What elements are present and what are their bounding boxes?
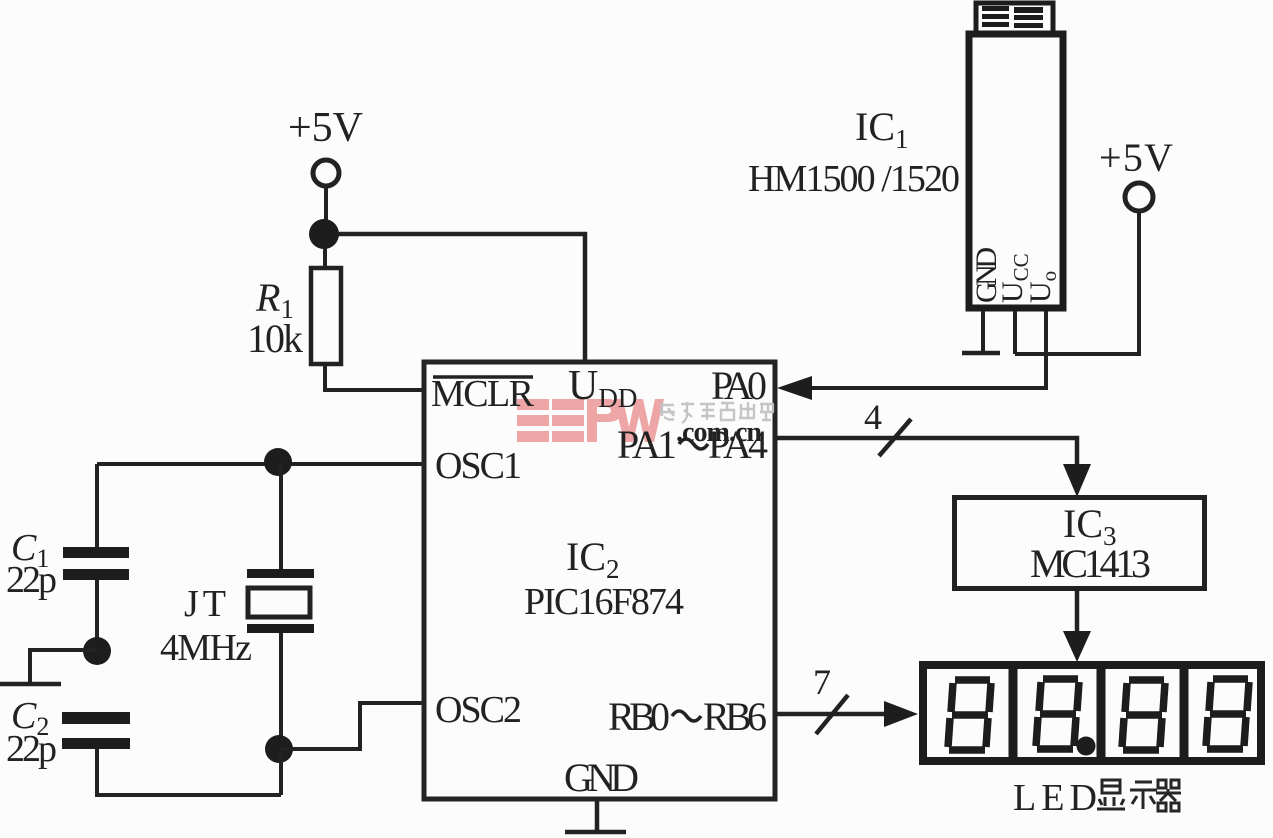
svg-text:PA4: PA4 bbox=[708, 422, 768, 467]
svg-text:+5V: +5V bbox=[1099, 135, 1173, 180]
wire OSC1 net bbox=[97, 462, 424, 466]
junction dot OSC2/crystal bbox=[265, 735, 293, 763]
wire OSC1 down to C1 bbox=[95, 464, 99, 549]
sensor Ucc pin bbox=[1013, 311, 1017, 354]
svg-text:RB6: RB6 bbox=[703, 694, 767, 739]
bus slash (4 lines) bbox=[879, 419, 911, 456]
wire R1 to MCLR pin bbox=[325, 364, 424, 390]
decimal point bbox=[1077, 737, 1096, 756]
capacitor C1 bbox=[63, 547, 129, 580]
label 显示器 (drawn glyphs) bbox=[1097, 780, 1181, 811]
arrowhead into PA0 bbox=[777, 376, 812, 400]
resistor R1 bbox=[311, 268, 341, 364]
LED digit divider 3 bbox=[1180, 662, 1189, 764]
LED display module box bbox=[923, 665, 1261, 761]
svg-text:JT: JT bbox=[184, 583, 226, 625]
wire RB0~RB6 to LED bbox=[775, 712, 886, 717]
arrowhead into IC3 bbox=[1063, 464, 1091, 497]
svg-text:MCLR: MCLR bbox=[431, 373, 535, 415]
ground (left) bbox=[0, 682, 61, 687]
ground (IC2) bbox=[565, 830, 626, 835]
sensor IC1 HM1500 body bbox=[969, 34, 1063, 308]
svg-text:4: 4 bbox=[864, 397, 882, 437]
svg-text:22p: 22p bbox=[6, 728, 57, 770]
pin label PA1~PA4 bbox=[617, 422, 768, 467]
wire C2 to bottom rail bbox=[97, 749, 281, 795]
bus slash (7 lines) bbox=[816, 695, 848, 734]
junction dot OSC1/crystal bbox=[264, 448, 292, 476]
LED digit 1 bbox=[948, 680, 991, 750]
wire OSC2 bbox=[281, 703, 424, 749]
svg-text:OSC2: OSC2 bbox=[435, 689, 522, 731]
svg-text:22p: 22p bbox=[6, 559, 57, 601]
LED digit divider 1 bbox=[1009, 662, 1018, 764]
svg-text:10k: 10k bbox=[247, 316, 303, 361]
wire junction to UDD pin bbox=[330, 234, 585, 361]
watermark chinese characters bbox=[659, 402, 774, 423]
junction dot C1/C2 bbox=[83, 637, 111, 665]
LED digit divider 2 bbox=[1097, 662, 1106, 764]
wire junction to bottom rail bbox=[279, 749, 283, 795]
watermark EEPW logo bbox=[517, 399, 664, 442]
svg-text:PIC16F874: PIC16F874 bbox=[524, 581, 684, 623]
power terminal +5V (left) bbox=[313, 160, 339, 186]
wire +5V to Ucc pin bbox=[1015, 211, 1139, 354]
sensor IC1 cap grille bbox=[976, 3, 1053, 34]
wire junction to R1 bbox=[323, 247, 327, 270]
wire +5V terminal to junction bbox=[324, 186, 328, 226]
svg-text:+5V: +5V bbox=[288, 105, 363, 151]
wire junction to ground stub bbox=[30, 650, 97, 684]
wire C1 to junction bbox=[95, 580, 99, 640]
IC3 MC1413 box bbox=[955, 498, 1205, 589]
svg-text:PA1: PA1 bbox=[617, 422, 677, 467]
svg-text:HM1500 /1520: HM1500 /1520 bbox=[748, 158, 960, 200]
svg-text:PA0: PA0 bbox=[711, 363, 767, 408]
LED digit 2 bbox=[1036, 679, 1079, 749]
svg-text:RB0: RB0 bbox=[608, 694, 670, 739]
pin label MCLR (overline) bbox=[431, 373, 535, 415]
sensor Uo pin wire to PA0 bbox=[810, 311, 1046, 388]
wire IC3 to LED bbox=[1075, 591, 1080, 633]
wire PA1~PA4 to IC3 bbox=[777, 438, 1077, 467]
svg-text:MC1413: MC1413 bbox=[1030, 541, 1151, 586]
power terminal +5V (sensor) bbox=[1125, 183, 1153, 211]
svg-text:7: 7 bbox=[813, 662, 831, 702]
LED digit 3 bbox=[1122, 680, 1165, 750]
svg-text:OSC1: OSC1 bbox=[435, 445, 522, 487]
arrowhead into LED bbox=[1063, 631, 1091, 662]
junction dot +5V node bbox=[309, 219, 339, 249]
wire crystal bottom bbox=[279, 633, 283, 740]
crystal JT bbox=[247, 569, 314, 633]
arrowhead into LED module bbox=[884, 701, 918, 727]
IC2 GND pin bbox=[595, 799, 600, 832]
ground (sensor) bbox=[962, 351, 1000, 356]
LED digit 4 bbox=[1206, 679, 1249, 749]
svg-text:GND: GND bbox=[564, 755, 639, 800]
sensor GND pin bbox=[981, 311, 985, 353]
pin label RB0~RB6 bbox=[608, 694, 767, 739]
capacitor C2 bbox=[62, 712, 130, 749]
svg-text:LED: LED bbox=[1013, 777, 1097, 819]
wire crystal top bbox=[279, 462, 283, 570]
svg-text:4MHz: 4MHz bbox=[160, 627, 252, 669]
IC2 PIC16F874 box bbox=[424, 362, 775, 799]
